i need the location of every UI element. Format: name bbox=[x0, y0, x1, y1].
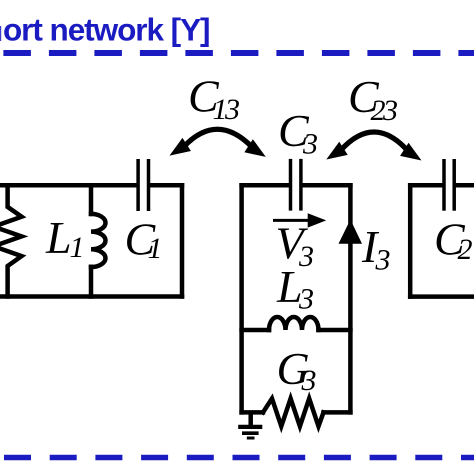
partial letter p of "port" at left edge bbox=[0, 26, 1, 41]
resistor G3 (zig-zag) bbox=[263, 399, 324, 427]
inductor L3 (horizontal coil) bbox=[269, 317, 319, 330]
wire: left box right side bbox=[180, 185, 185, 296]
inductor L1 (vertical coil) bbox=[89, 185, 94, 214]
current arrow I3 (arrowhead on right branch) bbox=[339, 220, 363, 244]
svg-text:L: L bbox=[45, 212, 72, 263]
svg-text:ort network [Y]: ort network [Y] bbox=[3, 12, 210, 48]
coupling arrow C13 right head bbox=[244, 139, 270, 163]
V3 polarity arrow bbox=[273, 219, 309, 222]
capacitor C2 plates bbox=[444, 159, 454, 211]
wire: right box top side (C2 off-screen right) bbox=[456, 183, 474, 188]
wire: middle box top side (left corner to C3) bbox=[242, 183, 289, 188]
coupling arrow C23 left head bbox=[322, 142, 348, 166]
wire: right box left side bbox=[408, 185, 413, 296]
svg-text:13: 13 bbox=[213, 93, 240, 126]
svg-text:1: 1 bbox=[70, 231, 85, 264]
wire: right box bottom side bbox=[410, 294, 474, 299]
blue dashed boundary, bottom edge bbox=[4, 455, 474, 461]
capacitor C1 plates bbox=[138, 159, 148, 211]
svg-text:3: 3 bbox=[375, 244, 391, 277]
wire: right box top side (left corner to C2) bbox=[410, 183, 442, 188]
coupling arrow C23 (arc) bbox=[341, 132, 407, 150]
coupling arrow C23 right head bbox=[400, 143, 426, 167]
wire: middle box right side (I3 branch) bbox=[348, 185, 353, 412]
ground bbox=[238, 412, 262, 438]
wire: left box bottom side bbox=[0, 294, 182, 299]
coupling arrow C13 (arc) bbox=[184, 129, 252, 146]
wire: bottom rung right segment bbox=[324, 410, 351, 415]
wire: middle box top side (C3 to right corner) bbox=[303, 183, 351, 188]
wire: inductor rung right segment bbox=[319, 328, 351, 333]
svg-text:3: 3 bbox=[301, 364, 317, 397]
svg-text:3: 3 bbox=[298, 283, 314, 316]
svg-text:1: 1 bbox=[148, 232, 163, 265]
coupling arrow C13 left head bbox=[165, 138, 191, 162]
capacitor C3 plates bbox=[291, 159, 301, 211]
wire: inductor rung left segment bbox=[242, 328, 269, 333]
resistor G1 (vertical, cut off at left edge) bbox=[0, 185, 22, 296]
svg-text:2: 2 bbox=[458, 233, 473, 266]
wire: bottom rung left segment bbox=[242, 410, 263, 415]
blue dashed boundary, top edge bbox=[3, 50, 474, 56]
wire: left box top side (C1 to top-right corner) bbox=[150, 183, 182, 188]
svg-text:23: 23 bbox=[371, 94, 398, 127]
wire: middle box left side bbox=[239, 185, 244, 412]
wire: left box top side (from off-screen left to capacitor C1) bbox=[0, 183, 136, 188]
svg-text:3: 3 bbox=[302, 128, 318, 161]
